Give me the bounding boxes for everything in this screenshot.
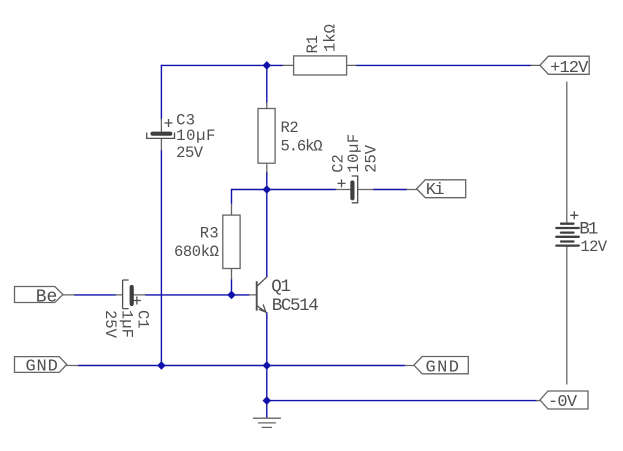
capacitor C3 plus sign: [165, 119, 173, 127]
pin C2 left: [336, 189, 350, 191]
stub Be: [63, 294, 74, 296]
transistor Q1 emitter diagonal: [257, 306, 266, 313]
svg-text:Q1: Q1: [271, 277, 290, 297]
pin R3 bottom: [231, 269, 233, 280]
svg-text:25V: 25V: [363, 144, 381, 173]
flag GND left: [15, 357, 67, 373]
transistor Q1 collector diagonal: [257, 277, 266, 286]
svg-text:Ki: Ki: [426, 181, 445, 200]
wire C2 to Ki: [373, 189, 407, 191]
pin C2 right: [359, 189, 373, 191]
junction node gnd emitter: [263, 361, 272, 370]
svg-text:BC514: BC514: [272, 296, 318, 316]
stub -0V: [537, 400, 540, 402]
battery B1 plus sign: [570, 211, 578, 219]
svg-text:25V: 25V: [101, 310, 119, 339]
resistor R1: [294, 56, 347, 75]
pin R1 right: [347, 64, 356, 66]
svg-text:12V: 12V: [580, 238, 607, 256]
junction node gnd left: [157, 361, 166, 370]
wire emitter node down: [266, 366, 268, 401]
ground symbol: [253, 418, 281, 427]
capacitor C1 plate +: [130, 287, 134, 304]
wire down to R3: [231, 190, 233, 205]
pin Q1 base: [250, 294, 257, 296]
pin R2 top: [266, 103, 268, 109]
junction node base: [227, 291, 236, 300]
capacitor C2 plate +: [350, 183, 354, 199]
junction node top: [263, 61, 272, 70]
wire node to C2: [232, 189, 337, 191]
svg-text:Be: Be: [36, 288, 58, 308]
stub Ki: [407, 189, 417, 191]
battery rail bottom: [566, 247, 568, 384]
flag Be: [15, 287, 64, 303]
svg-text:B1: B1: [579, 220, 598, 240]
wire R2 top: [266, 65, 268, 102]
svg-text:GND: GND: [26, 358, 59, 377]
wire top-left vertical drop: [160, 65, 162, 119]
wire left column below C3: [160, 150, 162, 366]
transistor Q1 emitter arrow: [259, 305, 266, 312]
svg-text:R3: R3: [200, 224, 219, 242]
svg-text:10µF: 10µF: [176, 127, 216, 145]
resistor R3: [223, 215, 240, 268]
stub GND left: [67, 365, 78, 367]
stub GND right: [405, 365, 414, 367]
svg-text:1µF: 1µF: [117, 310, 135, 338]
pin R3 top: [231, 204, 233, 215]
svg-text:R1: R1: [304, 35, 322, 54]
wire to -0V: [267, 400, 537, 402]
svg-text:-0V: -0V: [548, 393, 578, 412]
flag +12V: [540, 56, 589, 74]
wire emitter down: [266, 313, 268, 366]
wire R3 bottom: [231, 279, 233, 295]
svg-text:10µF: 10µF: [345, 133, 363, 173]
svg-text:680kΩ: 680kΩ: [174, 243, 219, 261]
resistor R2: [258, 109, 275, 164]
transistor Q1 base bar: [256, 281, 258, 310]
pin C3 bottom: [160, 138, 162, 150]
junction node R2 bottom: [263, 185, 272, 194]
svg-text:GND: GND: [426, 358, 461, 377]
svg-text:1kΩ: 1kΩ: [321, 24, 339, 52]
flag Ki: [417, 180, 466, 198]
svg-text:5.6kΩ: 5.6kΩ: [281, 138, 323, 156]
flag GND right: [414, 357, 468, 374]
capacitor C3 plate +: [153, 132, 171, 136]
wire top-left horizontal: [161, 64, 283, 66]
wire to ground symbol: [266, 401, 268, 418]
capacitor C1 plus sign: [133, 297, 141, 305]
pin C3 top: [160, 119, 162, 132]
wire R2 bottom to node: [266, 172, 268, 190]
capacitor C2 plate - bracket: [352, 176, 358, 203]
battery rail top: [566, 82, 568, 222]
battery B1 plates: [556, 224, 579, 246]
pin R2 bottom: [266, 163, 268, 172]
capacitor C2 plus sign: [338, 179, 346, 187]
pin C1 right: [134, 294, 145, 296]
wire collector: [266, 190, 268, 278]
wire R1 right to +12V: [356, 64, 531, 66]
junction node -0V: [263, 396, 272, 405]
pin R1 left: [283, 64, 294, 66]
flag -0V: [540, 391, 588, 409]
pin C1 left: [116, 294, 123, 296]
svg-text:25V: 25V: [176, 144, 204, 162]
capacitor C3 plate - bracket: [147, 133, 175, 139]
wire C1 to base: [145, 294, 250, 296]
stub +12V: [531, 64, 540, 66]
svg-text:R2: R2: [281, 119, 299, 137]
wire ground bus: [78, 365, 405, 367]
svg-text:+12V: +12V: [550, 59, 589, 78]
capacitor C1 plate - bracket: [123, 280, 129, 309]
wire Be to C1: [74, 294, 116, 296]
